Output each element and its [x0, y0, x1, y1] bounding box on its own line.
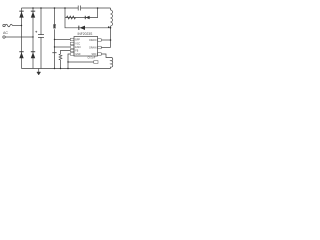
IC U1 body: [74, 37, 98, 57]
ground: [38, 69, 40, 73]
transformer T1 primary: [111, 8, 113, 26]
svg-text:FB: FB: [75, 50, 78, 52]
pin box BIAS: [94, 61, 98, 64]
svg-text:DRAIN: DRAIN: [89, 47, 96, 50]
svg-text:INF2023S: INF2023S: [78, 32, 94, 36]
svg-text:C6 1nF: C6 1nF: [88, 57, 96, 60]
capacitor C3 tick: [52, 52, 56, 54]
polarity dot: [108, 26, 110, 28]
pin box R1: [98, 39, 102, 42]
wire N to bridge: [5, 36, 33, 38]
fuse F1: [5, 24, 12, 27]
svg-text:AC: AC: [3, 31, 8, 35]
wire pin5 source: [68, 54, 70, 69]
diode D2: [31, 11, 35, 18]
plus sign C1: [35, 31, 37, 33]
svg-text:BPP: BPP: [75, 39, 80, 41]
wire clamp feed: [65, 8, 111, 28]
pin box L1: [70, 38, 74, 41]
capacitor C2 clamp: [78, 6, 80, 11]
inductor L1: [53, 25, 56, 28]
wire supply line: [54, 8, 56, 69]
svg-text:GND: GND: [75, 54, 80, 56]
wire clamp row: [65, 8, 98, 18]
wire bridge left leg: [21, 8, 23, 69]
diode D1: [19, 11, 23, 18]
wire drain pin R2: [101, 47, 110, 49]
diode D4: [31, 51, 35, 58]
pin box R3: [98, 53, 102, 56]
wire drain pin R1: [101, 39, 110, 41]
diode D3: [19, 51, 23, 58]
node B+ top rail: [22, 7, 111, 9]
transformer T1 bias winding: [111, 57, 113, 68]
resistor R2: [59, 54, 62, 60]
svg-text:EN/U: EN/U: [75, 47, 81, 49]
svg-text:VCC: VCC: [75, 43, 80, 45]
wire drain line: [110, 26, 112, 48]
IC pin names right: [89, 39, 96, 56]
diode D5: [78, 26, 85, 30]
pin box L4: [70, 49, 74, 52]
IC pin names left: [75, 39, 81, 56]
pin box L2: [70, 42, 74, 45]
zener VR1: [85, 16, 90, 19]
wire pin4 resistor path: [61, 51, 71, 55]
AC terminal L: [3, 24, 5, 26]
svg-text:DRAIN: DRAIN: [89, 39, 96, 42]
AC terminal N: [3, 36, 5, 38]
wire source node: [68, 61, 94, 63]
pin box L3: [70, 46, 74, 49]
wire pin3: [55, 46, 71, 48]
wire fuse to bridge: [12, 25, 21, 27]
wire bias pin R3: [101, 54, 110, 58]
pin box R2: [98, 46, 102, 49]
wire bridge right leg: [32, 8, 34, 69]
resistor R1: [67, 16, 76, 19]
pin box L5: [70, 53, 74, 56]
wire pin1: [55, 39, 71, 41]
junction dots: [21, 7, 112, 69]
capacitor C1: [40, 8, 42, 69]
node B- bottom rail: [22, 68, 111, 70]
